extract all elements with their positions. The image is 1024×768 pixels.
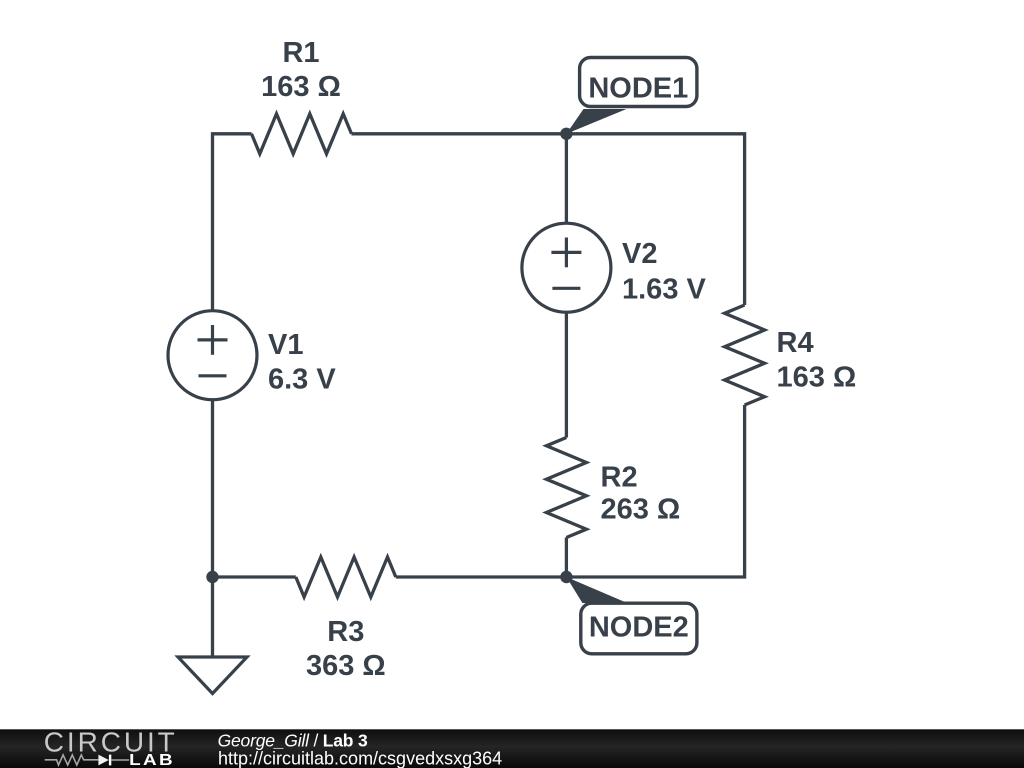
svg-text:NODE2: NODE2: [589, 611, 689, 643]
wire bottom horizontal and right vertical lower: [396, 405, 745, 577]
svg-text:R3: R3: [327, 616, 364, 648]
wire top horizontal and right vertical upper: [352, 134, 745, 305]
svg-text:1.63 V: 1.63 V: [622, 273, 706, 305]
svg-text:163 Ω: 163 Ω: [777, 361, 857, 393]
svg-text:R1: R1: [282, 37, 319, 69]
node NODE1 junction dot: [560, 128, 572, 140]
svg-text:NODE1: NODE1: [588, 72, 688, 104]
wire middle vertical upper: [565, 134, 568, 223]
wire top-left corner: [213, 134, 252, 311]
resistor R4: [725, 305, 765, 405]
svg-text:163 Ω: 163 Ω: [261, 71, 341, 103]
logo CircuitLab: [44, 727, 178, 768]
junction dot ground node: [206, 571, 218, 583]
svg-text:http://circuitlab.com/csgvedxs: http://circuitlab.com/csgvedxsxg364: [218, 748, 502, 768]
node NODE1 callout: [566, 58, 696, 134]
resistor R3: [296, 557, 396, 597]
voltage source V1: [168, 311, 257, 400]
svg-text:R4: R4: [777, 327, 814, 359]
svg-text:363 Ω: 363 Ω: [306, 650, 386, 682]
voltage source V2: [522, 223, 611, 312]
ground: [178, 657, 247, 694]
resistor R1: [252, 114, 352, 154]
wire middle vertical between V2 and R2: [565, 312, 568, 437]
node NODE2 junction dot: [560, 571, 572, 583]
svg-text:R2: R2: [601, 461, 638, 493]
svg-text:V2: V2: [622, 238, 657, 270]
resistor R2: [546, 438, 586, 538]
wire ground stem: [211, 577, 214, 657]
wire middle vertical below R2: [565, 538, 568, 578]
svg-text:263 Ω: 263 Ω: [601, 494, 681, 526]
svg-text:V1: V1: [268, 329, 303, 361]
svg-text:LAB: LAB: [129, 750, 175, 768]
wire left vertical lower: [211, 400, 214, 577]
node NODE2 callout: [566, 577, 696, 654]
wire bottom-left horizontal: [213, 575, 296, 578]
svg-text:6.3 V: 6.3 V: [268, 363, 336, 395]
